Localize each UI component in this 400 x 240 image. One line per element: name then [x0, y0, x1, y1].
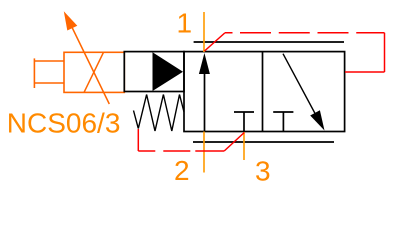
flow arrow shaft 1-3: [283, 54, 318, 119]
proportional arrow head: [64, 11, 78, 30]
svg-text:3: 3: [255, 156, 271, 187]
svg-text:2: 2: [174, 155, 190, 186]
proportional arrow line: [67, 17, 109, 104]
pilot drain dashed horizontal: [138, 150, 224, 152]
svg-text:NCS06/3: NCS06/3: [7, 107, 121, 138]
connector K1: [34, 58, 64, 88]
pilot stage box: [124, 52, 184, 92]
blocked port T left: [234, 112, 254, 132]
flow arrow shaft 2-1: [204, 70, 206, 132]
solenoid X diagonal: [84, 52, 104, 92]
port 2 line: [203, 132, 205, 173]
top rail: [194, 41, 344, 43]
pilot drain diagonal: [224, 133, 244, 152]
position divider: [262, 52, 264, 132]
blocked port T right: [273, 112, 293, 132]
valve body: [184, 52, 345, 132]
pilot drain vertical: [137, 129, 139, 151]
spring: [134, 95, 185, 132]
solenoid coil box: [64, 52, 124, 92]
pilot line right vertical: [384, 33, 386, 72]
seat poppet triangle: [153, 52, 184, 91]
svg-text:1: 1: [177, 7, 193, 38]
pilot line top diagonal: [205, 33, 226, 51]
flow arrow head 1-3: [310, 110, 324, 130]
flow arrow head 2-1: [199, 53, 210, 74]
port 1 line: [203, 12, 205, 52]
port 3 line: [243, 132, 245, 160]
pilot line top dashed: [225, 32, 385, 34]
pilot line right horizontal: [345, 71, 385, 73]
bottom rail: [193, 141, 334, 143]
